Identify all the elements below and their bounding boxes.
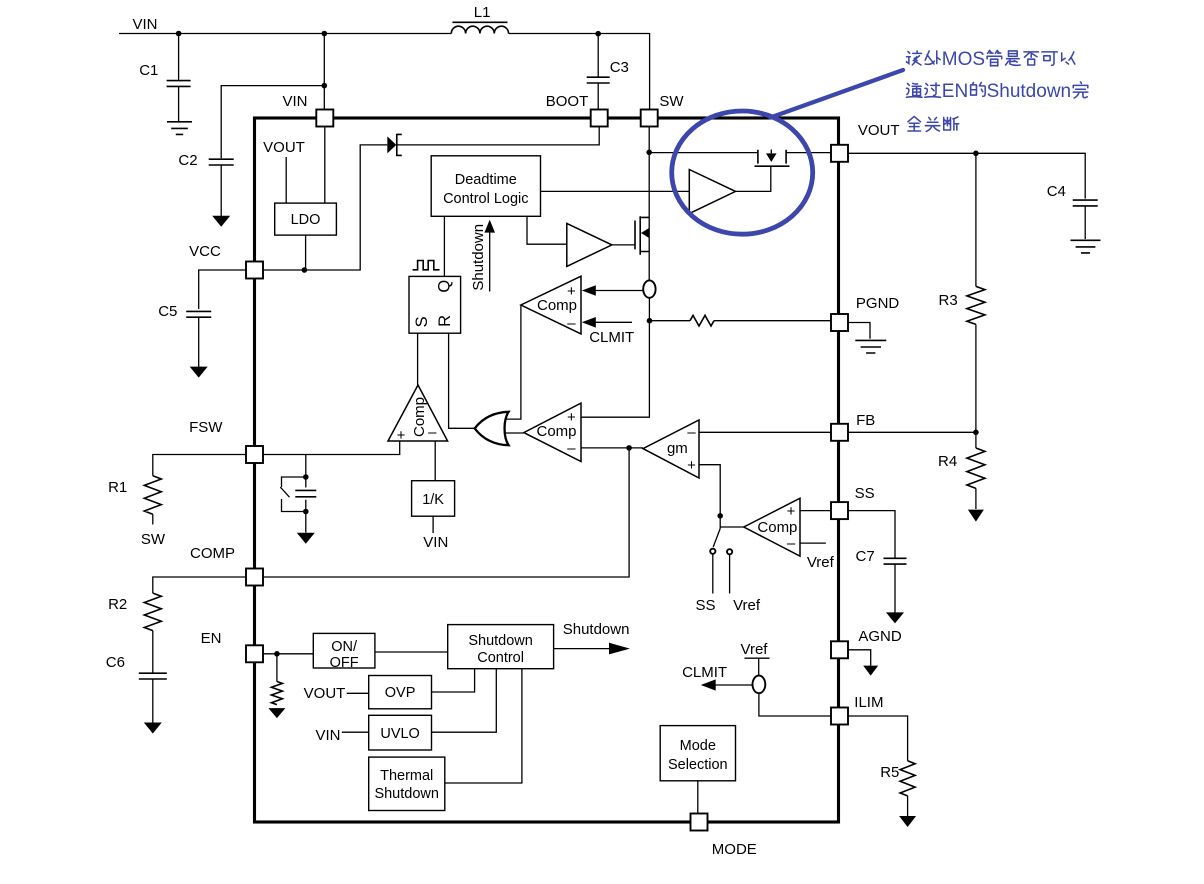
- pin SW: [641, 110, 658, 127]
- wire upper buffer out to gate: [736, 166, 771, 191]
- ground (below C1): [167, 122, 192, 135]
- block Mode Selection: [660, 726, 735, 781]
- op-amp Comp (soft-start comparator, points left): [744, 498, 800, 556]
- svg-text:Control: Control: [477, 650, 524, 666]
- wire deadtime to lower driver: [527, 216, 567, 244]
- mux contact Vref: [727, 549, 732, 554]
- svg-text:EN: EN: [942, 81, 968, 102]
- svg-text:1/K: 1/K: [422, 492, 444, 508]
- wire R input from OR gate: [449, 333, 475, 428]
- svg-text:LDO: LDO: [291, 212, 321, 228]
- wire ILIM pin to R5: [848, 716, 907, 761]
- svg-text:BOOT: BOOT: [546, 93, 589, 110]
- junction on VIN rail above VIN pin: [322, 31, 328, 37]
- svg-text:Shutdown: Shutdown: [468, 633, 533, 649]
- wire FSW into comp +: [263, 441, 400, 455]
- svg-text:Comp: Comp: [411, 397, 428, 437]
- driver buffer (upper, PMOS): [689, 170, 735, 214]
- wire gm + to soft-start mux: [699, 465, 720, 529]
- svg-text:CLMIT: CLMIT: [589, 329, 634, 346]
- wire SS pin to C7: [848, 511, 895, 558]
- svg-text:R1: R1: [108, 479, 127, 496]
- svg-text:Comp: Comp: [757, 519, 797, 536]
- power arrow (below C2): [212, 216, 230, 227]
- svg-text:VIN: VIN: [132, 16, 157, 33]
- op-amp gm (error amplifier, points left): [643, 420, 699, 478]
- pin MODE: [691, 814, 708, 831]
- wire ON/OFF to shutdown control: [375, 651, 448, 653]
- wire deadtime to flip-flop Q: [443, 216, 445, 276]
- junction on VIN rail at C1: [176, 31, 182, 37]
- power arrow (below R4): [968, 510, 984, 522]
- svg-text:AGND: AGND: [858, 628, 902, 645]
- annotation circle (blue): [672, 111, 813, 234]
- clock pulse glyph: [413, 261, 440, 270]
- svg-text:PGND: PGND: [856, 295, 900, 312]
- svg-text:Selection: Selection: [668, 757, 728, 773]
- svg-text:–: –: [787, 535, 796, 552]
- svg-text:C5: C5: [158, 303, 177, 320]
- wire clmit + input from sense: [596, 290, 644, 292]
- junction on VIN rail at L1 output / C3: [595, 31, 601, 37]
- svg-text:ON/: ON/: [331, 639, 358, 655]
- block ON/OFF: [313, 633, 375, 668]
- wire CS2 to ILIM pin: [759, 693, 831, 716]
- block Thermal Shutdown: [369, 757, 445, 810]
- switch across ramp cap: [280, 477, 306, 512]
- wire VIN pin down to LDO: [324, 127, 326, 203]
- wire upper comp out to OR input 1: [507, 305, 521, 419]
- power arrow (EN pulldown): [268, 708, 285, 718]
- svg-text:C6: C6: [106, 654, 125, 671]
- op-amp Comp (PWM comparator, points left): [524, 403, 581, 461]
- power arrow (AGND): [863, 666, 878, 676]
- svg-text:Thermal: Thermal: [380, 768, 433, 784]
- wire FSW pin to R1: [153, 455, 246, 476]
- svg-text:Shutdown: Shutdown: [563, 621, 630, 638]
- power arrow (below C6): [144, 723, 162, 734]
- wire deadtime to upper driver: [541, 190, 690, 192]
- diode D1 (boot schottky): [387, 136, 396, 153]
- wire AGND to arrow: [848, 650, 871, 666]
- svg-text:+: +: [397, 427, 406, 444]
- wire VOUT rail: [848, 153, 1085, 198]
- svg-text:OVP: OVP: [385, 685, 416, 701]
- wire S input from PWM comp: [417, 333, 419, 385]
- transistor Q1 (high-side MOSFET): [755, 150, 790, 167]
- svg-text:SS: SS: [695, 597, 715, 614]
- block OVP: [369, 676, 432, 709]
- svg-text:Vref: Vref: [807, 554, 835, 571]
- svg-text:R: R: [436, 315, 454, 327]
- svg-text:UVLO: UVLO: [380, 726, 420, 742]
- logic block Deadtime Control Logic: [431, 156, 540, 217]
- annotation text line 1 (blue): [906, 51, 921, 65]
- transistor Q2 (low-side MOSFET): [612, 244, 635, 246]
- svg-text:VOUT: VOUT: [263, 139, 305, 156]
- svg-text:C2: C2: [178, 152, 197, 169]
- svg-text:OFF: OFF: [330, 655, 359, 671]
- op-amp Comp (current-limit comparator CLMIT): [521, 276, 581, 334]
- svg-text:FSW: FSW: [189, 419, 223, 436]
- wire COMP pin to R2: [153, 577, 246, 593]
- wire SW pin node: [649, 127, 758, 281]
- wire gm - to FB pin: [699, 431, 831, 433]
- svg-text:C1: C1: [139, 62, 158, 79]
- annotation text line 2 (blue): [906, 83, 922, 97]
- svg-text:ILIM: ILIM: [854, 694, 883, 711]
- svg-text:Shutdown: Shutdown: [470, 224, 487, 291]
- wire PWM + from current sense node: [581, 321, 649, 418]
- wire diode to BOOT: [397, 127, 599, 145]
- signal Shutdown (arrow into deadtime): [489, 231, 491, 292]
- svg-text:Vref: Vref: [741, 641, 769, 658]
- junction current sense node: [647, 318, 653, 324]
- svg-text:C3: C3: [610, 59, 629, 76]
- wire ss comp out to mux: [720, 526, 744, 528]
- svg-text:MOS: MOS: [942, 49, 985, 70]
- svg-text:L1: L1: [474, 4, 491, 21]
- regulator LDO: [275, 203, 337, 235]
- wire Q1 to VOUT pin: [786, 152, 831, 154]
- block Shutdown Control: [448, 625, 554, 669]
- svg-text:Shutdown: Shutdown: [374, 786, 439, 802]
- pin FB: [831, 424, 848, 441]
- svg-text:VOUT: VOUT: [304, 685, 346, 702]
- wire ss comp - Vref stub: [800, 542, 826, 544]
- svg-text:VOUT: VOUT: [858, 122, 900, 139]
- pin COMP: [246, 569, 263, 586]
- pin AGND: [831, 641, 848, 658]
- annotation leader line (blue): [771, 70, 904, 118]
- switched capacitor (FSW ramp): [305, 455, 307, 478]
- gate OR1 (reset logic, points left): [475, 412, 509, 445]
- wire LDO out to VCC: [305, 235, 307, 270]
- power arrow (below C7): [886, 612, 904, 623]
- svg-text:SW: SW: [659, 93, 684, 110]
- wire PWM comp out to OR input 2: [505, 432, 524, 434]
- pin BOOT: [591, 110, 608, 127]
- svg-text:Control Logic: Control Logic: [443, 191, 528, 207]
- flip-flop U2 (S R Q latch): [409, 276, 461, 333]
- svg-text:–: –: [687, 424, 696, 441]
- wire mode selection to MODE pin: [697, 781, 699, 814]
- signal Shutdown (output arrow): [554, 648, 612, 650]
- svg-text:gm: gm: [667, 440, 688, 457]
- power arrow (below C5): [190, 367, 208, 378]
- wire 1/K to VIN label: [432, 516, 434, 533]
- svg-text:–: –: [567, 315, 576, 332]
- current source CS2 (Vref/CLMIT): [753, 676, 766, 694]
- svg-text:MODE: MODE: [712, 841, 757, 858]
- svg-text:Vref: Vref: [733, 597, 761, 614]
- pin FSW: [246, 446, 263, 463]
- svg-text:COMP: COMP: [190, 545, 235, 562]
- svg-text:Q: Q: [435, 280, 453, 293]
- wire UVLO to shutdown control: [432, 669, 497, 733]
- wire EN node: [263, 653, 313, 655]
- wire ss comp + to SS pin: [800, 510, 831, 512]
- ground (PGND): [848, 323, 870, 339]
- wire PWM - / gm out / COMP pin node: [263, 448, 643, 577]
- svg-text:VIN: VIN: [315, 727, 340, 744]
- pin EN: [246, 645, 263, 662]
- wire OVP to shutdown control: [432, 669, 475, 692]
- svg-text:Deadtime: Deadtime: [455, 172, 517, 188]
- wire FB pin to divider: [848, 431, 976, 433]
- resistor (EN pulldown): [276, 654, 278, 682]
- wire VIN top rail: [119, 34, 650, 110]
- resistor (sense, to PGND): [650, 320, 691, 322]
- pin VIN: [316, 110, 333, 127]
- svg-text:R5: R5: [880, 764, 899, 781]
- mux contact SS: [710, 549, 715, 554]
- pin SS: [831, 502, 848, 519]
- wire clmit - input (CLMIT): [596, 321, 633, 323]
- op-amp Comp (slope comparator, points up): [388, 385, 448, 441]
- svg-text:VIN: VIN: [423, 534, 448, 551]
- junction LDO/VCC: [302, 267, 308, 273]
- junction VOUT rail at R3: [973, 151, 979, 157]
- svg-text:R3: R3: [939, 292, 958, 309]
- current sense CS1: [643, 280, 655, 297]
- svg-text:Mode: Mode: [680, 738, 716, 754]
- wire VCC pin to C5: [199, 270, 246, 309]
- annotation text line 3 (blue): [908, 116, 921, 131]
- block 1/K: [412, 481, 455, 517]
- svg-text:C7: C7: [856, 548, 875, 565]
- driver buffer (lower, NMOS): [567, 223, 612, 266]
- wire thermal to shutdown control: [445, 669, 522, 783]
- block UVLO: [369, 715, 432, 750]
- svg-text:+: +: [567, 283, 576, 300]
- pin VOUT: [831, 145, 848, 162]
- svg-text:–: –: [428, 424, 437, 441]
- svg-text:EN: EN: [201, 630, 222, 647]
- pin VCC: [246, 262, 263, 279]
- pin ILIM: [831, 708, 848, 725]
- svg-text:R4: R4: [938, 453, 957, 470]
- svg-text:Shutdown: Shutdown: [987, 81, 1072, 102]
- svg-text:CLMIT: CLMIT: [682, 664, 727, 681]
- wire VCC internal rail: [263, 145, 387, 270]
- switch mux blade: [713, 529, 720, 548]
- svg-text:FB: FB: [856, 412, 875, 429]
- svg-text:SW: SW: [141, 531, 166, 548]
- svg-text:+: +: [567, 409, 576, 426]
- power arrow (ramp cap): [297, 533, 315, 544]
- ground (below C4): [1071, 240, 1101, 253]
- IC boundary box U1: [255, 118, 839, 822]
- svg-text:VIN: VIN: [282, 93, 307, 110]
- pin PGND: [831, 314, 848, 331]
- svg-text:VCC: VCC: [189, 243, 221, 260]
- junction FB node: [973, 430, 979, 436]
- svg-text:+: +: [687, 457, 696, 474]
- svg-text:R2: R2: [108, 596, 127, 613]
- svg-text:S: S: [413, 316, 431, 327]
- svg-text:+: +: [787, 503, 796, 520]
- wire comp - to 1/K: [434, 441, 436, 481]
- power arrow (below R5): [899, 816, 916, 827]
- svg-text:C4: C4: [1047, 183, 1066, 200]
- svg-text:–: –: [567, 440, 576, 457]
- svg-text:SS: SS: [855, 485, 875, 502]
- wire VIN to C2: [221, 34, 324, 159]
